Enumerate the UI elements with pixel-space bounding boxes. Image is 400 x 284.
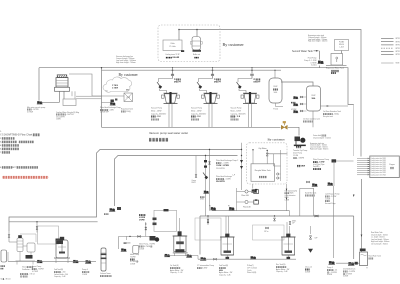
wire: drop to raw water tank x353: [353, 216, 355, 259]
sand filter pumps: [312, 183, 318, 186]
leftmost receiver vessel: [1, 250, 7, 262]
agitated tank 1: [173, 218, 188, 256]
svg-text:C.T.W.S: C.T.W.S: [112, 85, 118, 87]
pump 5: [329, 261, 335, 265]
wire: return header y70: [102, 69, 282, 71]
svg-text:▓ ▓ ▓ ▓: ▓ ▓ ▓ ▓: [259, 176, 267, 179]
svg-text:Recycle Water Tank: Recycle Water Tank: [255, 169, 271, 172]
wire: dotted drop to machine: [353, 105, 355, 157]
svg-text:DN50 PT: DN50 PT: [254, 82, 262, 84]
tank3 inlet valve: [289, 222, 291, 225]
svg-text:6.▓ ▓ ▓ ▓ ▓M7T▓ ▓ ▓ ▓ ▓ ▓ ▓ ▓: 6.▓ ▓ ▓ ▓ ▓M7T▓ ▓ ▓ ▓ ▓ ▓ ▓ ▓ ▓ ▓: [0, 166, 38, 169]
arrow on x361: [361, 234, 363, 237]
svg-text:DN25: DN25: [192, 182, 196, 184]
motor valve dark: [56, 239, 64, 245]
svg-text:77: 77: [366, 268, 368, 270]
svg-text:0.4KW: 0.4KW: [327, 274, 332, 276]
svg-text:FLOAT: FLOAT: [339, 40, 344, 43]
svg-text:DN50 PT: DN50 PT: [214, 82, 222, 84]
wire: manifold bottom right: [198, 258, 296, 260]
trans pump: [37, 260, 43, 263]
svg-text:WTR LN: WTR LN: [396, 54, 400, 56]
svg-text:3.▓ ▓ ▓ ▓ ▓ ▓ ▓→▓ ▓ ▓ ▓ ▓ ▓ ▓: 3.▓ ▓ ▓ ▓ ▓ ▓ ▓→▓ ▓ ▓ ▓ ▓ ▓ ▓: [0, 141, 34, 144]
wire: y210.7: [212, 210, 290, 212]
mini recycle pump: [37, 101, 43, 104]
svg-text:500L: 500L: [274, 92, 278, 94]
wire: arrow to feed: [314, 50, 319, 52]
inline pump: [121, 248, 127, 251]
svg-text:CIP in: CIP in: [264, 231, 268, 233]
svg-text:370PM: 370PM: [139, 219, 145, 221]
drop valve at 274: [274, 215, 275, 216]
svg-text:▓ ▓ ▓ ▓ ▓: ▓ ▓ ▓ ▓ ▓: [151, 118, 160, 121]
svg-text:▓ ▓ ▓: ▓ ▓ ▓: [331, 72, 337, 75]
svg-text:DN25: DN25: [200, 199, 204, 201]
feed pump P3: [318, 61, 324, 64]
hx pump: [110, 102, 116, 105]
buffer tank vessel: [192, 37, 201, 51]
node: supply tee 1: [178, 29, 180, 31]
svg-text:T Tank: T Tank: [273, 109, 278, 111]
svg-text:L-203: L-203: [339, 47, 343, 49]
svg-text:CT chiller: CT chiller: [169, 46, 176, 48]
svg-text:High hose height : 700mm: High hose height : 700mm: [116, 61, 136, 64]
svg-text:15KW: 15KW: [56, 119, 61, 121]
svg-text:▓ ▓ ▓ ▓ ▓ ▓ ▓: ▓ ▓ ▓ ▓ ▓ ▓ ▓: [100, 274, 112, 277]
cooling tower CT-100: [55, 75, 70, 92]
svg-text:Capacity : 1-4K: Capacity : 1-4K: [54, 275, 66, 278]
svg-text:Dryer: Dryer: [389, 163, 395, 166]
tank top valve: [266, 153, 268, 156]
svg-text:25L-50TPH: 25L-50TPH: [216, 181, 226, 183]
wire: bottom manifold left: [8, 260, 96, 262]
cloud boundary: [103, 77, 132, 92]
left valve on riser: [241, 143, 243, 190]
agitated tank 2: [220, 216, 235, 259]
wire: float box drop: [341, 51, 343, 54]
wire: inner recirculation loop: [115, 156, 238, 207]
drum pump: [348, 262, 354, 266]
frame around tank3: [253, 225, 285, 240]
intermediate pump: [250, 256, 256, 259]
drop valve x145.8: [145, 222, 147, 237]
wire: bottom distribution header: [200, 215, 354, 217]
valve cluster mid: [266, 227, 269, 229]
silencer tank T: [269, 78, 282, 103]
svg-text:▓ ▓: ▓ ▓: [390, 167, 394, 170]
plate heat exchanger: [124, 93, 133, 102]
enclosure: chiller skid (dashed, by customer): [158, 25, 220, 62]
svg-text:By customer: By customer: [268, 138, 286, 142]
svg-text:4.▓ ▓ ▓/▓ ▓ ▓ ▓ ▓: 4.▓ ▓ ▓/▓ ▓ ▓ ▓ ▓: [0, 144, 19, 147]
glass distillation unit: [8, 231, 36, 265]
packed column tower: [101, 248, 106, 271]
wire: mid piping: [119, 236, 156, 249]
svg-text:WTR LN: WTR LN: [396, 41, 400, 43]
wire: distillation feed line: [9, 221, 98, 223]
svg-text:Plate Heat Exchange: Plate Heat Exchange: [216, 175, 232, 178]
svg-text:Plate 4.0(M): Plate 4.0(M): [247, 271, 257, 274]
svg-text:Vacuum Pump: Vacuum Pump: [191, 108, 202, 110]
wire: seal water outlet header y127: [102, 126, 281, 128]
wire: tower riser left: [38, 68, 40, 101]
vacuum pump unit VP3: [231, 67, 262, 127]
svg-text:DN25: DN25: [292, 221, 296, 223]
svg-text:▓ ▓ ▓ ▓ ▓ ▓: ▓ ▓ ▓ ▓ ▓ ▓: [303, 120, 313, 123]
wire: x313 drop: [313, 188, 315, 216]
skid pump below: [251, 189, 257, 192]
svg-text:C.T.W.R: C.T.W.R: [112, 88, 119, 90]
svg-text:Capacity : 1 - 4K: Capacity : 1 - 4K: [170, 271, 183, 274]
hx pumps on header: [210, 207, 216, 210]
agitated tank 3: [281, 222, 296, 259]
wire: tower to hx: [69, 74, 124, 96]
inner loop pump at bottom: [109, 208, 115, 211]
svg-text:▓ ▓ ▓ - 11 K: ▓ ▓ ▓ - 11 K: [231, 115, 241, 118]
enclosure: recycle water tank skid: [247, 143, 288, 184]
machine stubs: [357, 157, 370, 159]
svg-text:0.75KW: 0.75KW: [32, 271, 38, 273]
svg-text:▓ ▓ ▓: ▓ ▓ ▓: [273, 88, 278, 91]
svg-text:50T: 50T: [126, 90, 129, 92]
pump station column: [293, 96, 298, 99]
condenser box above tank1: [154, 210, 177, 231]
wire: pump discharge: [319, 66, 321, 68]
wire: riser x101: [101, 68, 103, 128]
wire: drop to feed pump: [319, 51, 321, 60]
float switches: [280, 150, 282, 181]
recycle water tank: [251, 164, 275, 182]
wire: outer recirculation loop: [9, 150, 242, 232]
svg-text:Vacuum Pump: Vacuum Pump: [231, 108, 242, 110]
wire: drop to tank: [196, 30, 198, 37]
valve-arrow at header: [207, 216, 209, 225]
svg-text:0.75KW: 0.75KW: [291, 109, 297, 111]
jacketed kettle 2: [54, 237, 70, 263]
svg-text:City Water: City Water: [258, 147, 267, 150]
svg-text:Chiller: Chiller: [170, 43, 175, 45]
svg-text:Capacity - 660m3/hr: Capacity - 660m3/hr: [151, 112, 167, 115]
svg-text:▓ ▓ ▓ ▓ ▓ ▓: ▓ ▓ ▓ ▓ ▓ ▓: [149, 137, 169, 141]
vacuum pump unit VP2: [191, 67, 222, 127]
svg-text:Motor - 11KW: Motor - 11KW: [191, 109, 202, 112]
expansion water tank: [331, 54, 343, 66]
svg-text:Comp: Comp: [192, 180, 196, 182]
wire: manifold into raw tank: [336, 262, 359, 264]
left riser symbols: [205, 156, 207, 217]
svg-text:(▓ ▓ ▓ ▓ ▓ ▓ ▓ ▓ ▓ ▓ ▓ ▓;▓ ▓ ▓: (▓ ▓ ▓ ▓ ▓ ▓ ▓ ▓ ▓ ▓ ▓ ▓;▓ ▓ ▓ ▓ ▓ ▓): [2, 176, 48, 179]
svg-text:Expansion Water Tank: Expansion Water Tank: [326, 66, 344, 69]
node: supply tee 2: [196, 29, 198, 31]
svg-text:1.5KW: 1.5KW: [82, 274, 87, 276]
wire: pump line to machine: [334, 160, 354, 162]
pump cluster below cloud: [111, 100, 114, 103]
inline pump2 (dark): [150, 236, 156, 241]
wire: cooling water header y68: [39, 68, 354, 105]
svg-text:2.2KW 5HP: 2.2KW 5HP: [100, 112, 110, 114]
condenser frame: [38, 226, 59, 244]
svg-text:▓ ▓ ▓ 150(L): ▓ ▓ ▓ 150(L): [121, 110, 131, 113]
svg-text:Second Water Tank: Second Water Tank: [292, 50, 314, 53]
flow meters: [245, 190, 248, 193]
svg-text:WTR LN: WTR LN: [396, 51, 400, 53]
svg-text:DN50 PT: DN50 PT: [174, 82, 182, 84]
svg-text:▓ ▓ ▓: ▓ ▓ ▓: [369, 257, 374, 260]
frame left of tank2: [195, 218, 221, 240]
valve on manifold left: [214, 258, 217, 260]
legend: line style samples: [381, 38, 394, 40]
svg-text:5-10(L): 5-10(L): [311, 65, 317, 67]
svg-text:(▓ ▓) - 15KPM: (▓ ▓) - 15KPM: [293, 156, 305, 159]
svg-text:5L ▓ - 3K set: 5L ▓ - 3K set: [1, 278, 11, 281]
svg-text:1.5KW: 1.5KW: [139, 248, 144, 250]
chiller unit box: [163, 40, 182, 51]
svg-text:▓ ▓ 5KW: ▓ ▓ 5KW: [297, 164, 305, 167]
svg-text:(▓) ▓ ▓ ▓: (▓) ▓ ▓ ▓: [20, 275, 28, 278]
wire: chilled water supply top header: [179, 30, 361, 157]
svg-text:▓ ▓ ▓ ▓ ▓: ▓ ▓ ▓ ▓ ▓: [231, 118, 240, 121]
svg-text:P2: P2: [209, 206, 211, 208]
svg-text:▓ ▓ ▓: ▓ ▓ ▓: [296, 145, 302, 148]
svg-text:Vacuum Pump: Vacuum Pump: [151, 108, 162, 110]
svg-text:▓ ▓ ▓ - 11 K: ▓ ▓ ▓ - 11 K: [151, 115, 161, 118]
svg-text:WTR LN: WTR LN: [396, 48, 400, 50]
svg-text:High level height : 200mm: High level height : 200mm: [308, 40, 328, 43]
svg-text:7.▓ ▓ ▓ ▓: 7.▓ ▓ ▓ ▓: [0, 151, 10, 154]
wire: outlet to drain pump: [288, 127, 299, 135]
svg-text:Capacity : 1-4K: Capacity : 1-4K: [276, 270, 288, 273]
drain pump (dark): [294, 137, 306, 147]
pumps near tank1: [164, 254, 170, 257]
svg-text:▓ ▓ ▓ ▓ ▓ - 4.0KW: ▓ ▓ ▓ ▓ ▓ - 4.0KW: [216, 178, 231, 181]
svg-text:Vacuum pump seal water outlet: Vacuum pump seal water outlet: [149, 131, 188, 135]
svg-text:YJ-2HJART/NB-0I Flow Chart ▓ ▓: YJ-2HJART/NB-0I Flow Chart ▓ ▓ ▓: [0, 134, 40, 137]
wire: drops into tank: [252, 150, 254, 164]
raw water tank: [360, 252, 368, 266]
svg-text:1.5KW: 1.5KW: [130, 264, 135, 266]
valve on header: [315, 215, 318, 217]
wire: drain pump suction: [267, 153, 287, 155]
mid pump left: [200, 257, 206, 260]
svg-text:Capacity - 660m3/hr: Capacity - 660m3/hr: [191, 112, 207, 115]
small vessel: [133, 246, 139, 254]
wire: y188: [300, 187, 314, 189]
svg-text:0.4KW: 0.4KW: [343, 276, 348, 278]
svg-text:WTR LN: WTR LN: [396, 45, 400, 47]
CIP valve column: [310, 226, 312, 234]
wire: x333 drop: [333, 186, 335, 258]
svg-text:By customer: By customer: [119, 73, 139, 77]
svg-text:WTR LN: WTR LN: [396, 38, 400, 40]
amber butterfly valve: [281, 121, 287, 129]
feed valve: [36, 222, 38, 233]
svg-text:▓ ▓ ▓ ▓ ▓: ▓ ▓ ▓ ▓ ▓: [313, 168, 322, 171]
small valve pair right of loop: [195, 156, 197, 175]
valve at chiller outlet: [181, 50, 184, 52]
svg-text:SW-10: SW-10: [339, 44, 344, 46]
svg-text:P1: P1: [228, 206, 230, 208]
1st floor stainless tank: [307, 86, 321, 111]
svg-text:1-10M: 1-10M: [285, 199, 290, 201]
svg-text:Capacity - 660m3/hr: Capacity - 660m3/hr: [231, 112, 247, 115]
vacuum pump unit VP1: [151, 67, 182, 127]
svg-text:Second Pump: Second Pump: [325, 203, 336, 205]
svg-text:Channel depth : 150mm: Channel depth : 150mm: [313, 136, 332, 139]
wire: drop to chiller: [178, 30, 180, 41]
svg-text:2.▓ ▓ ▓ ▓ ▓ ▓: 2.▓ ▓ ▓ ▓ ▓ ▓: [0, 137, 15, 140]
svg-text:By customer: By customer: [223, 42, 245, 47]
svg-text:Plate Heat Exchange Pump 2: Plate Heat Exchange Pump 2: [216, 159, 238, 162]
x353 arrow: [353, 194, 355, 197]
wire: tank outlet to machine riser: [321, 105, 349, 107]
svg-text:Capacity : 1-4K: Capacity : 1-4K: [219, 274, 231, 277]
svg-text:Motor - 11KW: Motor - 11KW: [151, 109, 162, 112]
wire: basin to riser: [76, 95, 102, 97]
svg-text:C-1P: C-1P: [126, 97, 129, 99]
float switch box: [335, 40, 349, 51]
pumps mid-left: [73, 260, 79, 263]
wire: tower outlets: [59, 91, 61, 102]
svg-text:5.▓ ▓ ▓ ▓ ▓ ▓ ▓ ▓: 5.▓ ▓ ▓ ▓ ▓ ▓ ▓ ▓: [0, 148, 19, 151]
basin box: [63, 99, 76, 106]
wire: drop x361 below machine: [361, 179, 363, 252]
svg-text:▓ ▓ ▓ ▓ ▓: ▓ ▓ ▓ ▓ ▓: [191, 118, 200, 121]
svg-text:500L: 500L: [312, 98, 316, 100]
wire: pump to basin: [42, 101, 60, 103]
svg-text:Motor - 11KW: Motor - 11KW: [231, 109, 242, 112]
machine: dryer main unit: [370, 156, 400, 178]
svg-text:25L-50TPH: 25L-50TPH: [216, 168, 225, 170]
svg-text:▓ ▓ ▓ 0.4KW: ▓ ▓ ▓ 0.4KW: [197, 266, 208, 269]
wire: silencer to recycle tank: [281, 82, 313, 86]
svg-text:▓ ▓ ▓ - 11 K: ▓ ▓ ▓ - 11 K: [191, 115, 201, 118]
svg-text:▓ ▓ ▓ 2 - 4.0KW: ▓ ▓ ▓ 2 - 4.0KW: [216, 162, 229, 165]
svg-text:L-P: L-P: [233, 174, 235, 176]
svg-text:CIP: CIP: [292, 223, 295, 225]
svg-text:Recycle tank: Recycle tank: [323, 115, 333, 118]
svg-text:0.4KW: 0.4KW: [305, 271, 310, 273]
svg-text:0.75KW: 0.75KW: [27, 111, 33, 113]
